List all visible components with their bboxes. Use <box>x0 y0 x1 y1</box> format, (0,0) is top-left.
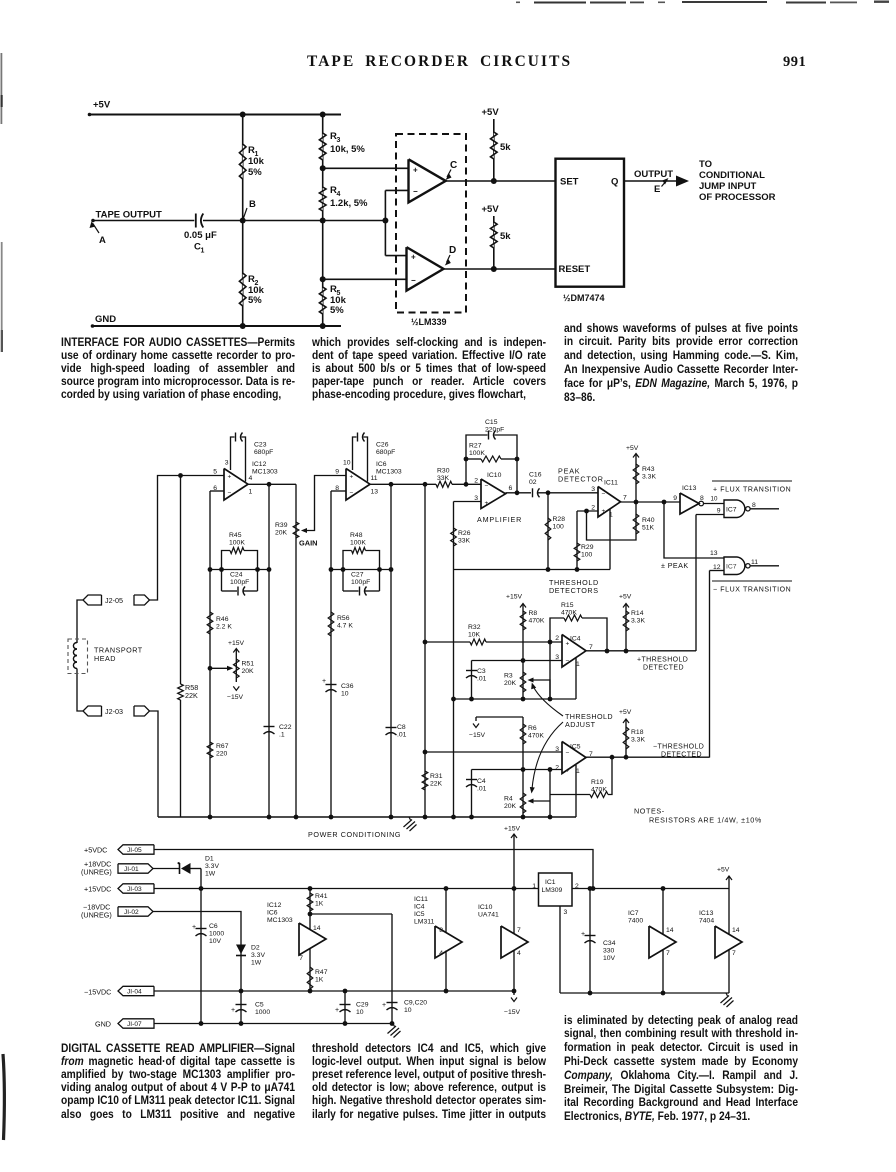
svg-text:R18: R18 <box>631 729 644 736</box>
label POWER CONDITIONING <box>308 830 401 839</box>
LM309 pin labels <box>532 883 579 916</box>
op-amp IC4 <box>562 635 586 668</box>
wire bus x453 down <box>451 570 456 820</box>
svg-text:−15V: −15V <box>504 1009 521 1016</box>
svg-text:33K: 33K <box>437 475 450 482</box>
svg-text:−15V: −15V <box>227 694 244 701</box>
+15V arrow to power section <box>504 826 521 889</box>
svg-text:C9,C20: C9,C20 <box>404 1000 427 1007</box>
svg-text:R28: R28 <box>553 516 566 523</box>
svg-text:R27: R27 <box>469 443 482 450</box>
wire +5VDC rail <box>154 850 595 891</box>
svg-text:R46: R46 <box>216 616 229 623</box>
wire R1-R2 chain vertical <box>242 115 244 327</box>
svg-text:½LM339: ½LM339 <box>411 317 447 327</box>
svg-text:IC4: IC4 <box>414 904 425 911</box>
label D with arrow <box>445 245 456 266</box>
ground symbol main rail <box>404 817 417 831</box>
wire IC11 output <box>621 500 681 505</box>
wire power ground rail <box>560 992 729 994</box>
svg-text:1000: 1000 <box>255 1009 270 1016</box>
wire -15VDC rail <box>154 989 516 994</box>
resistor R3 <box>319 131 365 160</box>
svg-text:4: 4 <box>517 950 521 957</box>
svg-text:5k: 5k <box>500 142 511 153</box>
svg-text:−THRESHOLD: −THRESHOLD <box>653 744 704 751</box>
svg-text:IC10: IC10 <box>487 472 502 479</box>
connector J1-05 +5VDC <box>84 845 154 855</box>
svg-text:R40: R40 <box>642 517 655 524</box>
resistor R1 <box>239 144 264 179</box>
svg-text:R32: R32 <box>468 624 481 631</box>
op-amp IC11 peak detector <box>598 480 621 518</box>
capacitor C36 <box>322 678 354 698</box>
resistor R27 feedback <box>464 443 520 496</box>
power triangle UA741 <box>501 926 528 958</box>
svg-text:−15VDC: −15VDC <box>84 988 111 997</box>
svg-text:+5V: +5V <box>619 709 632 716</box>
svg-text:−: − <box>413 187 418 196</box>
svg-text:R30: R30 <box>437 468 450 475</box>
label THRESHOLD ADJUST with arrows <box>530 683 613 794</box>
svg-text:R14: R14 <box>631 610 644 617</box>
wire IC12 output <box>248 482 296 487</box>
+15V feed R8 chain <box>506 594 526 702</box>
svg-text:02: 02 <box>529 479 537 486</box>
svg-text:6: 6 <box>509 485 513 492</box>
resistor R28 <box>545 493 565 572</box>
wire IC11 pin2 <box>577 509 598 514</box>
svg-text:TAPE OUTPUT: TAPE OUTPUT <box>96 210 163 221</box>
svg-text:3.3K: 3.3K <box>642 474 656 481</box>
svg-text:MC1303: MC1303 <box>252 469 278 476</box>
op-amp IC6 <box>346 461 402 500</box>
svg-text:D: D <box>449 245 456 256</box>
svg-text:DETECTED: DETECTED <box>661 751 702 758</box>
wire UA741 pins <box>513 889 515 992</box>
svg-text:+5V: +5V <box>482 107 500 118</box>
svg-text:R67: R67 <box>216 743 229 750</box>
svg-text:51K: 51K <box>642 525 655 532</box>
svg-text:5%: 5% <box>330 305 344 316</box>
wire +5V rail right <box>572 886 729 891</box>
connector J1-07 GND <box>95 1019 154 1029</box>
wire 7400 pins <box>661 889 666 996</box>
wire +15VDC rail <box>154 886 539 891</box>
wire IC4 output +THRESHOLD DETECTED <box>586 651 696 672</box>
svg-text:14: 14 <box>732 927 740 934</box>
IC7a pin labels <box>717 502 756 515</box>
wire IC13 to gate <box>704 495 725 503</box>
scan edge marks left <box>1 53 5 1140</box>
svg-text:HEAD: HEAD <box>94 654 116 663</box>
potentiometer R51 with +15V/-15V <box>210 640 254 701</box>
wire IC6 inverting chain vertical <box>329 491 334 819</box>
svg-text:3: 3 <box>564 909 568 916</box>
svg-text:2: 2 <box>555 765 559 772</box>
wire 7404 pins <box>728 889 730 994</box>
diode D2 zener 3.3V <box>236 945 265 967</box>
svg-text:1: 1 <box>249 489 253 496</box>
svg-text:R19: R19 <box>591 779 604 786</box>
resistor R15 feedback <box>550 602 609 653</box>
svg-text:10K: 10K <box>468 632 481 639</box>
svg-text:11: 11 <box>751 559 758 566</box>
wire IC6 output <box>370 482 436 487</box>
NAND gate IC7a <box>724 500 750 518</box>
svg-text:−: − <box>566 750 570 757</box>
+5V pullup upper <box>482 107 500 181</box>
svg-text:8: 8 <box>752 502 756 509</box>
ground symbol power rail <box>721 993 734 1007</box>
svg-text:(UNREG): (UNREG) <box>81 868 112 877</box>
svg-text:IC12: IC12 <box>252 461 267 468</box>
wire IC4 pin1 <box>575 658 577 699</box>
svg-text:C23: C23 <box>254 442 267 449</box>
svg-text:10: 10 <box>404 1007 412 1014</box>
label NOTES <box>634 807 762 825</box>
label IC12 IC6 MC1303 <box>267 902 293 924</box>
svg-text:10V: 10V <box>209 938 222 945</box>
svg-text:+: + <box>322 678 326 685</box>
svg-text:+5V: +5V <box>626 445 639 452</box>
resistor R4 <box>319 185 368 211</box>
svg-text:IC12: IC12 <box>267 902 282 909</box>
svg-text:C5: C5 <box>255 1002 264 1009</box>
svg-text:13: 13 <box>710 550 718 557</box>
connector J2-05 <box>83 595 150 605</box>
connector J1-02 -18VDC <box>81 903 153 920</box>
svg-text:3.3K: 3.3K <box>631 737 645 744</box>
svg-text:+: + <box>413 166 418 175</box>
comparator C <box>409 159 446 202</box>
svg-text:R31: R31 <box>430 773 443 780</box>
svg-text:+: + <box>192 924 196 931</box>
svg-text:7: 7 <box>589 644 593 651</box>
wire IC5 output -THRESHOLD DETECTED <box>586 744 710 759</box>
svg-text:20K: 20K <box>504 803 517 810</box>
wire J2-03 to ground rail <box>150 711 159 817</box>
wire GND rail <box>154 1021 394 1026</box>
wire IC12 pin6 <box>210 490 224 492</box>
svg-text:R4: R4 <box>504 796 513 803</box>
svg-text:R48: R48 <box>350 532 363 539</box>
svg-text:B: B <box>249 199 256 210</box>
svg-text:1000: 1000 <box>209 931 224 938</box>
svg-text:IC5: IC5 <box>570 744 581 751</box>
svg-text:100: 100 <box>553 524 565 531</box>
svg-text:330: 330 <box>603 948 615 955</box>
svg-text:D1: D1 <box>205 856 214 863</box>
connector J2-03 <box>83 706 150 716</box>
resistor 5k lower <box>491 222 512 248</box>
svg-text:C36: C36 <box>341 683 354 690</box>
op-amp IC12 <box>224 461 278 500</box>
flip-flop U 1/2 DM7474 <box>556 159 625 303</box>
svg-text:OF PROCESSOR: OF PROCESSOR <box>699 192 776 203</box>
svg-text:AMPLIFIER: AMPLIFIER <box>477 515 522 524</box>
svg-text:13: 13 <box>371 489 379 496</box>
svg-text:IC7: IC7 <box>628 910 639 917</box>
svg-text:+: + <box>382 1002 386 1009</box>
node A <box>90 222 107 247</box>
svg-text:+ FLUX TRANSITION: + FLUX TRANSITION <box>713 487 791 494</box>
IC13 pin labels <box>673 495 704 502</box>
wire IC7b output <box>750 565 779 567</box>
svg-text:D2: D2 <box>251 945 260 952</box>
wire D1/C6 vertical <box>199 869 204 1026</box>
svg-text:4: 4 <box>249 475 253 482</box>
wire IC12 inverting chain vertical <box>208 491 213 819</box>
svg-text:(UNREG): (UNREG) <box>81 911 112 920</box>
resistor R45 / capacitor C24 feedback <box>210 532 271 596</box>
svg-text:JI-07: JI-07 <box>127 1021 142 1028</box>
svg-text:IC11: IC11 <box>604 480 618 487</box>
svg-text:POWER CONDITIONING: POWER CONDITIONING <box>308 830 401 839</box>
op-amp IC10 AMPLIFIER <box>477 472 522 524</box>
svg-text:7404: 7404 <box>699 918 714 925</box>
svg-text:7: 7 <box>666 950 670 957</box>
svg-text:3.3V: 3.3V <box>205 863 219 870</box>
resistor R30 <box>436 468 481 488</box>
capacitor C6 <box>192 923 224 945</box>
svg-text:DETECTOR: DETECTOR <box>558 475 604 484</box>
svg-text:22K: 22K <box>430 781 443 788</box>
op-amp IC5 <box>562 742 586 775</box>
svg-text:14: 14 <box>313 925 321 932</box>
+5V pullup lower <box>482 204 500 269</box>
wire J1-02 to D2 <box>153 912 243 1026</box>
svg-text:680pF: 680pF <box>254 449 273 456</box>
wire IC10 output / capacitor C16 <box>506 472 599 498</box>
svg-text:JI-05: JI-05 <box>127 847 142 854</box>
svg-text:470K: 470K <box>528 733 544 740</box>
svg-text:9: 9 <box>673 495 677 502</box>
svg-text:R26: R26 <box>458 530 471 537</box>
transport head coil <box>68 639 143 674</box>
svg-text:100K: 100K <box>350 540 366 547</box>
IC10 pin labels <box>474 478 512 503</box>
capacitor C34 <box>581 889 616 996</box>
wire IC7a output <box>750 508 779 510</box>
svg-text:220pF: 220pF <box>485 427 504 434</box>
svg-text:R43: R43 <box>642 466 655 473</box>
svg-text:4: 4 <box>439 950 443 957</box>
IC4 pin labels <box>555 635 593 668</box>
resistor 5k upper <box>491 132 512 159</box>
svg-text:2.2 K: 2.2 K <box>216 624 232 631</box>
wire IC5 pin1 <box>575 765 577 817</box>
wire LM309 pin3 to ground rail <box>559 906 561 993</box>
svg-text:470K: 470K <box>529 618 545 625</box>
wire Q OUTPUT with arrow <box>624 169 689 187</box>
main ground rail <box>158 816 576 818</box>
svg-text:R15: R15 <box>561 602 574 609</box>
connector J1-04 -15VDC <box>84 986 154 996</box>
wire IC7b pin12 from -threshold <box>710 571 725 758</box>
capacitor C8 <box>386 724 407 739</box>
svg-text:OUTPUT: OUTPUT <box>634 169 673 180</box>
capacitor C23 <box>231 433 274 482</box>
svg-text:5%: 5% <box>248 295 262 306</box>
svg-text:RESISTORS ARE 1/4W, ±10%: RESISTORS ARE 1/4W, ±10% <box>649 816 762 825</box>
svg-text:C22: C22 <box>279 724 292 731</box>
resistor R29 <box>574 511 593 570</box>
svg-text:3: 3 <box>225 460 229 467</box>
svg-text:.01: .01 <box>397 732 407 739</box>
label THRESHOLD DETECTORS <box>549 578 599 595</box>
svg-text:8: 8 <box>700 495 704 502</box>
-15V terminal arrow <box>504 991 521 1016</box>
svg-text:+THRESHOLD: +THRESHOLD <box>637 657 688 664</box>
scan edge marks top <box>516 1 889 4</box>
svg-text:CONDITIONAL: CONDITIONAL <box>699 170 765 181</box>
svg-text:ADJUST: ADJUST <box>565 720 596 729</box>
svg-text:GND: GND <box>95 314 116 325</box>
node E <box>654 178 669 195</box>
svg-text:RESET: RESET <box>559 264 591 275</box>
label + FLUX TRANSITION <box>712 481 792 494</box>
svg-text:Q: Q <box>611 177 618 188</box>
svg-text:R39: R39 <box>275 522 288 529</box>
svg-text:LM311: LM311 <box>414 919 434 926</box>
svg-text:JUMP INPUT: JUMP INPUT <box>699 181 757 192</box>
capacitor C1 <box>184 214 217 255</box>
svg-text:3.3K: 3.3K <box>631 618 645 625</box>
resistor R31 <box>422 771 442 790</box>
svg-text:8: 8 <box>439 927 443 934</box>
power triangle 7404 <box>715 926 742 958</box>
label IC10 UA741 <box>478 904 499 919</box>
svg-text:IC6: IC6 <box>376 461 387 468</box>
svg-text:7: 7 <box>732 950 736 957</box>
regulator IC1 LM309 <box>539 873 573 906</box>
svg-text:IC10: IC10 <box>478 904 493 911</box>
svg-text:+: + <box>485 500 489 507</box>
svg-text:100pF: 100pF <box>351 579 370 586</box>
resistor R6 <box>520 724 544 744</box>
svg-text:C3: C3 <box>477 668 486 675</box>
svg-text:1: 1 <box>532 883 536 890</box>
label IC13 7404 <box>699 910 714 925</box>
resistor R46 <box>207 612 232 634</box>
svg-text:IC11: IC11 <box>414 896 428 903</box>
svg-text:−: − <box>228 490 232 497</box>
resistor R67 <box>207 742 228 758</box>
potentiometer R3 <box>504 672 550 699</box>
resistor R48 / capacitor C27 feedback <box>331 532 391 596</box>
svg-text:C34: C34 <box>603 940 616 947</box>
svg-text:+: + <box>231 1007 235 1014</box>
svg-text:GND: GND <box>95 1020 111 1029</box>
svg-text:7: 7 <box>517 927 521 934</box>
svg-text:20K: 20K <box>275 530 288 537</box>
label IC7 7400 <box>628 910 643 925</box>
svg-text:C29: C29 <box>356 1002 369 1009</box>
svg-text:IC5: IC5 <box>414 911 425 918</box>
svg-text:1K: 1K <box>315 901 324 908</box>
-15V feed R6 chain <box>469 717 525 772</box>
svg-text:+5V: +5V <box>717 867 730 874</box>
svg-text:+: + <box>581 931 585 938</box>
wire IC6 pin8 <box>331 490 346 492</box>
resistor R18 with +5V <box>619 709 645 760</box>
NAND gate IC7b <box>724 557 750 575</box>
svg-text:C6: C6 <box>209 923 218 930</box>
svg-text:1.2k, 5%: 1.2k, 5% <box>330 198 368 209</box>
svg-text:0.05 μF: 0.05 μF <box>184 230 217 241</box>
svg-text:−: − <box>566 658 570 665</box>
wire IC12 output vertical / capacitor C22 <box>264 484 292 819</box>
power triangle 7400 <box>649 926 676 958</box>
+5V arrow label <box>717 867 732 889</box>
svg-text:½DM7474: ½DM7474 <box>563 293 605 303</box>
svg-text:+: + <box>566 768 570 775</box>
svg-text:IC1: IC1 <box>545 879 556 886</box>
label TO CONDITIONAL JUMP INPUT OF PROCESSOR <box>699 159 776 203</box>
resistor R47 <box>307 949 327 992</box>
svg-text:4: 4 <box>337 191 341 198</box>
svg-text:+15V: +15V <box>228 640 245 647</box>
wire IC5 pin2 vertical to rail <box>548 770 553 820</box>
svg-text:LM309: LM309 <box>542 887 563 894</box>
svg-text:10: 10 <box>711 495 718 502</box>
svg-text:+5V: +5V <box>482 204 500 215</box>
svg-text:33K: 33K <box>458 538 471 545</box>
wire local ground rail y570 <box>454 567 611 572</box>
svg-text:.1: .1 <box>279 732 285 739</box>
svg-text:470K: 470K <box>591 787 607 794</box>
svg-text:A: A <box>99 235 106 246</box>
wire pin14 node to C9/C20 <box>310 914 392 1024</box>
diode D1 zener 3.3V <box>153 856 219 878</box>
svg-text:9: 9 <box>717 508 721 515</box>
svg-text:−: − <box>350 490 354 497</box>
svg-text:R56: R56 <box>337 615 350 622</box>
ground symbol GND rail <box>388 1024 401 1038</box>
resistor R43 with +5V <box>626 445 656 502</box>
IC11 pin labels <box>591 486 627 519</box>
svg-text:JI-04: JI-04 <box>127 989 142 996</box>
svg-text:+5V: +5V <box>93 100 111 111</box>
svg-text:7400: 7400 <box>628 918 643 925</box>
resistor R2 <box>239 273 264 306</box>
wire node B to comparator inputs <box>385 190 408 255</box>
wire IC4 pin3 / capacitor C3 <box>466 661 562 702</box>
svg-text:11: 11 <box>371 475 378 482</box>
label - FLUX TRANSITION <box>712 581 792 594</box>
svg-text:−: − <box>485 483 489 490</box>
svg-text:2: 2 <box>474 478 478 485</box>
resistor R58 <box>178 473 198 817</box>
wire C8 branch vertical <box>389 484 394 819</box>
label IC11 IC4 IC5 LM311 <box>414 896 434 926</box>
label PEAK DETECTOR <box>558 467 604 484</box>
svg-text:TO: TO <box>699 159 712 170</box>
svg-text:JI-01: JI-01 <box>124 866 139 873</box>
svg-text:10k: 10k <box>248 156 265 167</box>
wire IC4 pin2 vertical <box>548 642 553 701</box>
svg-text:2: 2 <box>555 635 559 642</box>
IC6 pin labels <box>335 460 378 496</box>
svg-text:R47: R47 <box>315 969 328 976</box>
svg-text:GAIN: GAIN <box>299 539 317 548</box>
svg-text:470K: 470K <box>561 610 577 617</box>
svg-text:3.3V: 3.3V <box>251 952 265 959</box>
resistor R19 feedback <box>550 755 614 798</box>
potentiometer R4 <box>504 770 550 820</box>
label C with arrow <box>446 160 458 180</box>
